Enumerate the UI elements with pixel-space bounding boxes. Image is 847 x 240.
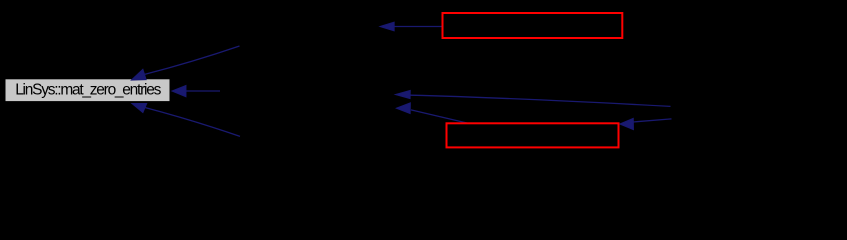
red box 1 <box>443 13 623 38</box>
wire A <box>395 90 670 106</box>
wire E1 <box>131 46 239 80</box>
wire C <box>620 118 672 129</box>
wire E2 <box>172 85 220 96</box>
wire E3 <box>132 103 240 136</box>
wire E4 <box>380 22 442 31</box>
caller graph <box>0 0 847 183</box>
node LinSys::mat_zero_entries <box>6 79 170 101</box>
svg-text:LinSys::mat_zero_entries: LinSys::mat_zero_entries <box>15 81 161 98</box>
red box 2 <box>447 123 619 147</box>
wire B <box>396 103 468 124</box>
